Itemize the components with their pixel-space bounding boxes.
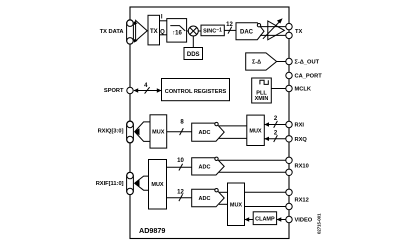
svg-text:12: 12 <box>177 190 184 196</box>
svg-text:DAC: DAC <box>240 29 254 35</box>
svg-text:Q: Q <box>160 29 165 35</box>
svg-text:ADC: ADC <box>199 196 211 202</box>
svg-text:Σ-Δ_OUT: Σ-Δ_OUT <box>295 60 320 66</box>
svg-text:↑16: ↑16 <box>172 30 182 36</box>
svg-text:CLAMP: CLAMP <box>255 217 275 223</box>
svg-text:XMIN: XMIN <box>255 96 269 102</box>
svg-text:RXI: RXI <box>295 123 305 129</box>
svg-text:I: I <box>161 14 163 20</box>
svg-text:MCLK: MCLK <box>295 87 312 93</box>
svg-text:RXIF[11:0]: RXIF[11:0] <box>96 181 124 187</box>
svg-text:MUX: MUX <box>151 182 164 188</box>
svg-text:CONTROL REGISTERS: CONTROL REGISTERS <box>165 89 227 95</box>
svg-text:DDS: DDS <box>187 52 200 58</box>
svg-text:RX10: RX10 <box>295 164 309 170</box>
svg-text:MUX: MUX <box>249 128 262 134</box>
svg-text:RXIQ[3:0]: RXIQ[3:0] <box>98 128 124 134</box>
svg-text:RX12: RX12 <box>295 198 309 204</box>
svg-text:VIDEO: VIDEO <box>295 218 313 224</box>
svg-text:TX: TX <box>150 29 158 35</box>
svg-text:SPORT: SPORT <box>104 88 124 94</box>
svg-text:RXQ: RXQ <box>295 137 308 143</box>
svg-text:4: 4 <box>144 83 148 89</box>
svg-text:10: 10 <box>177 158 184 164</box>
svg-text:TX DATA: TX DATA <box>100 29 124 35</box>
svg-text:8: 8 <box>180 120 184 126</box>
svg-text:AD9879: AD9879 <box>139 226 165 235</box>
svg-text:MUX: MUX <box>230 202 243 208</box>
svg-text:SINC−1: SINC−1 <box>203 28 222 35</box>
svg-text:02715-001: 02715-001 <box>317 213 322 234</box>
svg-text:ADC: ADC <box>199 164 211 170</box>
svg-text:Σ-Δ: Σ-Δ <box>252 60 261 66</box>
svg-text:12: 12 <box>226 22 233 28</box>
svg-text:TX: TX <box>295 29 302 35</box>
svg-text:ADC: ADC <box>199 130 211 136</box>
svg-text:MUX: MUX <box>152 130 165 136</box>
svg-text:CA_PORT: CA_PORT <box>295 74 323 80</box>
